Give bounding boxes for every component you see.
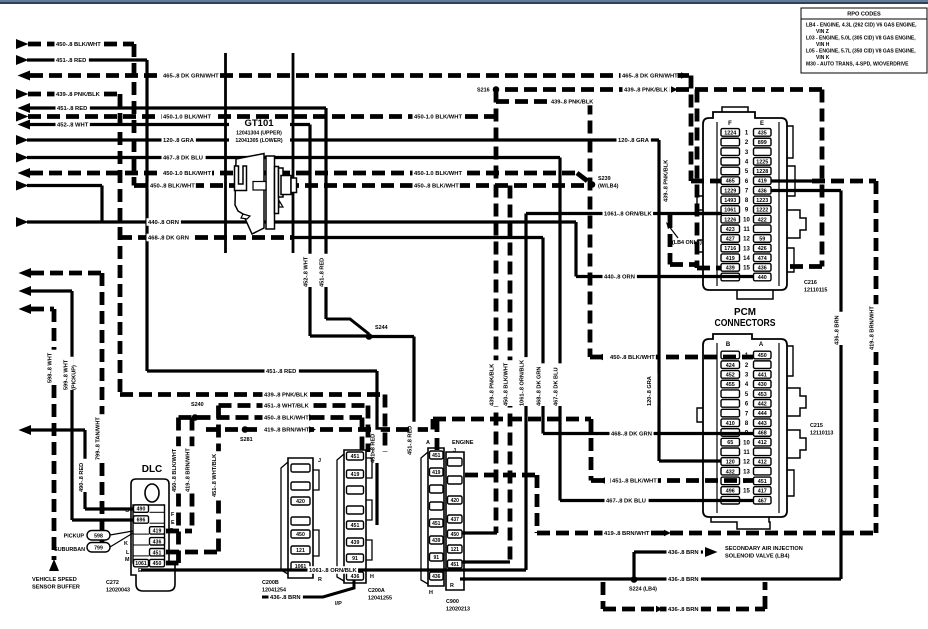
- svg-text:419-.8 BRN/WHT: 419-.8 BRN/WHT: [264, 428, 310, 434]
- svg-text:439-.8 PNK/BLK: 439-.8 PNK/BLK: [56, 92, 101, 98]
- svg-text:450: 450: [296, 532, 305, 538]
- svg-text:451: 451: [351, 523, 360, 529]
- vertical wire label 450-.8 BLK/WHT: [175, 446, 182, 492]
- wire riser 450 dashed x134: [132, 44, 137, 186]
- wire 465 stub into C216 F6: [691, 179, 722, 184]
- C216 pin row 2: [721, 138, 740, 146]
- C200A pin 1: [347, 452, 364, 460]
- solenoid valve arrow: [705, 547, 718, 557]
- svg-text:419-.8 BRN/WHT: 419-.8 BRN/WHT: [869, 306, 875, 350]
- C200A pin 3: [347, 486, 364, 494]
- svg-text:VIN K: VIN K: [816, 55, 830, 61]
- C200B pin 7: [291, 562, 310, 570]
- svg-text:K: K: [124, 541, 128, 547]
- wire label 451-.8 RED: [265, 367, 299, 375]
- svg-text:H: H: [370, 574, 374, 580]
- wire label 450-.8 BLK/WHT: [55, 40, 102, 48]
- wire 440-.8 ORN into C216 440 crossing F16: [576, 275, 753, 278]
- svg-text:R: R: [318, 577, 322, 583]
- wire label 419-.8 BRN/WHT: [603, 529, 650, 537]
- wire 450-.8 BLK/WHT row11 solid stub: [16, 181, 29, 191]
- svg-text:1229: 1229: [724, 188, 736, 194]
- svg-text:91: 91: [433, 555, 439, 561]
- wire label 439-.8 PNK/BLK: [550, 98, 596, 106]
- wire 436-.8 BRN from C200A H: [262, 580, 354, 597]
- svg-text:DLC: DLC: [142, 464, 163, 475]
- vertical wire label 452-.8 WHT: [306, 254, 313, 287]
- svg-text:439-.8 PNK/BLK: 439-.8 PNK/BLK: [489, 364, 495, 406]
- svg-text:799-.8 TAN/WHT: 799-.8 TAN/WHT: [95, 417, 101, 460]
- svg-text:451-.8 WHT/BLK: 451-.8 WHT/BLK: [264, 404, 310, 410]
- C215 pin row 11: [721, 448, 740, 456]
- svg-text:J: J: [318, 458, 321, 464]
- wire label 120-.8 GRA: [617, 136, 651, 144]
- svg-text:C272: C272: [106, 580, 119, 586]
- C215 pin row 6: [721, 400, 740, 408]
- C216 pin row 13: [721, 244, 740, 252]
- svg-text:450-.8 BLK/WHT: 450-.8 BLK/WHT: [503, 362, 509, 406]
- svg-text:442: 442: [758, 402, 767, 408]
- C900 left pin 3: [430, 485, 444, 493]
- svg-text:490: 490: [137, 507, 146, 513]
- connector C215: [697, 334, 833, 529]
- svg-text:12020213: 12020213: [446, 607, 470, 613]
- svg-text:C215: C215: [810, 423, 823, 429]
- svg-text:VIN Z: VIN Z: [816, 29, 829, 35]
- svg-text:1228: 1228: [756, 169, 768, 175]
- wire label 468-.8 DK GRN: [147, 234, 191, 242]
- C900 left pin 5: [430, 519, 444, 527]
- svg-text:436-.8 BRN: 436-.8 BRN: [668, 577, 699, 583]
- svg-text:12: 12: [743, 460, 750, 466]
- svg-text:468-.8 DK GRN: 468-.8 DK GRN: [148, 236, 189, 242]
- wire label 436-.8 BRN: [269, 593, 303, 601]
- wire label 450-.8 BLK/WHT: [413, 182, 460, 190]
- C216 pin row 1: [721, 129, 740, 137]
- splice S244: [366, 333, 373, 340]
- svg-text:455: 455: [726, 382, 735, 388]
- svg-text:436: 436: [758, 188, 767, 194]
- wire riser 1061 x526: [524, 214, 527, 571]
- splice S281: [242, 426, 249, 433]
- svg-text:D: D: [170, 528, 174, 534]
- C216 pin row 5: [721, 167, 740, 175]
- wire 439-.8 PNK/BLK branch row: [496, 99, 590, 104]
- svg-text:436: 436: [351, 574, 360, 580]
- svg-text:443: 443: [758, 421, 767, 427]
- wire drop 465 x691: [689, 76, 694, 182]
- C900 right pin 2: [448, 476, 463, 484]
- svg-text:450-.8 BLK/WHT: 450-.8 BLK/WHT: [264, 416, 309, 422]
- svg-text:I/P: I/P: [335, 601, 342, 607]
- svg-text:ENGINE: ENGINE: [452, 440, 474, 446]
- C215 pin row 1: [721, 351, 740, 359]
- wire drop x590 to C215 A1: [588, 102, 593, 358]
- wire 452-.8 WHT drop x310: [308, 125, 311, 337]
- C900 left pin 4: [430, 502, 444, 510]
- wire 1061 stub F9: [700, 212, 721, 215]
- svg-text:C200B: C200B: [262, 580, 279, 586]
- wire into DLC 419 pin: [166, 529, 192, 534]
- svg-text:10: 10: [743, 217, 750, 223]
- wire 467-.8 DK BLU row9: [16, 153, 29, 163]
- svg-text:S239: S239: [598, 176, 611, 182]
- wire label 439-.8 PNK/BLK: [55, 90, 102, 98]
- svg-text:439: 439: [432, 538, 441, 544]
- svg-text:11: 11: [743, 450, 750, 456]
- svg-text:412: 412: [758, 440, 767, 446]
- connector C200B: [281, 458, 319, 578]
- vertical wire label 450-.8 BLK/WHT: [506, 360, 513, 406]
- svg-text:E: E: [760, 121, 764, 127]
- C215 pin row 14: [721, 477, 740, 485]
- wire label 436-.8 BRN: [667, 548, 701, 556]
- svg-text:440-.8 ORN: 440-.8 ORN: [148, 220, 179, 226]
- wire label 1061-.8 ORN/BLK: [308, 566, 359, 574]
- C216 pin row 3: [721, 148, 740, 156]
- svg-text:419: 419: [351, 472, 360, 478]
- svg-text:465-.8 DK GRN/WHT: 465-.8 DK GRN/WHT: [622, 74, 678, 80]
- svg-text:450-.8 BLK/WHT: 450-.8 BLK/WHT: [610, 355, 655, 361]
- vertical wire label 1061-.8 ORN/BLK: [522, 357, 529, 406]
- wire 468-.8 DK GRN row14: [119, 235, 293, 240]
- svg-text:419-.8 BRN/WHT: 419-.8 BRN/WHT: [185, 448, 191, 492]
- svg-text:451-.8 BLK/WHT: 451-.8 BLK/WHT: [612, 479, 657, 485]
- wire drop x385 to C200A: [383, 395, 388, 453]
- splice S240: [192, 414, 199, 421]
- vertical wire label 451-.8 RED: [410, 422, 417, 455]
- svg-text:451: 451: [432, 453, 441, 459]
- wire 439-.8 PNK/BLK from S216 to right: [505, 87, 822, 92]
- svg-text:SENSOR BUFFER: SENSOR BUFFER: [32, 585, 80, 591]
- svg-text:1061: 1061: [724, 208, 736, 214]
- C215 pin row 3: [721, 371, 740, 379]
- svg-text:451-.8 RED: 451-.8 RED: [319, 258, 325, 287]
- svg-text:1061-.8 ORN/BLK: 1061-.8 ORN/BLK: [604, 212, 652, 218]
- wire riser 451 RED x147: [145, 60, 148, 371]
- C200A pin 6: [347, 538, 364, 546]
- wire 450-1.0 BLK/WHT row6: [16, 112, 29, 122]
- svg-text:13: 13: [743, 246, 750, 252]
- wire 452-.8 WHT row7: [18, 120, 31, 130]
- svg-text:427: 427: [726, 237, 735, 243]
- C215 pin row 10: [721, 438, 740, 446]
- svg-text:SOLENOID VALVE (LB4): SOLENOID VALVE (LB4): [725, 554, 790, 560]
- wire 490-.8 RED: [19, 425, 32, 435]
- C215 pin row 7: [721, 409, 740, 417]
- wire label 440-.8 ORN: [603, 273, 637, 281]
- svg-text:474: 474: [758, 256, 767, 262]
- svg-text:451-.8 RED: 451-.8 RED: [56, 58, 86, 64]
- svg-text:12041304 (UPPER): 12041304 (UPPER): [236, 131, 282, 137]
- wire label 451-.8 RED: [55, 56, 89, 64]
- svg-text:S240: S240: [191, 402, 204, 408]
- svg-text:1225: 1225: [756, 159, 768, 165]
- svg-text:R: R: [450, 583, 454, 589]
- svg-text:432: 432: [726, 469, 735, 475]
- C215 pin row 5: [721, 390, 740, 398]
- PICKUP oval: [87, 531, 110, 541]
- wire 419 riser from S240: [190, 418, 195, 532]
- svg-text:467-.8 DK BLU: 467-.8 DK BLU: [163, 156, 203, 162]
- svg-text:SECONDARY AIR INJECTION: SECONDARY AIR INJECTION: [725, 546, 803, 552]
- wire label 436-.8 BRN: [667, 575, 701, 583]
- connector C216: [697, 107, 827, 299]
- wire 451-.8 RED drop x326: [324, 108, 327, 319]
- top banner bar: [0, 0, 928, 2]
- wire label 419-.8 BRN/WHT: [263, 426, 310, 434]
- C216 pin row 8: [721, 196, 740, 204]
- C215 pin row 15: [721, 487, 740, 495]
- oval link lines: [110, 531, 133, 535]
- svg-text:120-.8 GRA: 120-.8 GRA: [647, 376, 653, 406]
- svg-text:412: 412: [758, 460, 767, 466]
- svg-text:439: 439: [726, 265, 735, 271]
- C215 pin row 8: [721, 419, 740, 427]
- svg-text:451-.8 RED: 451-.8 RED: [266, 369, 296, 375]
- GT101 grommet drawing: [235, 154, 297, 235]
- svg-text:10: 10: [743, 440, 750, 446]
- C900 right pin 6: [448, 545, 463, 553]
- wire into DLC 451 pin: [166, 550, 219, 555]
- wire into DLC row2: [72, 518, 134, 521]
- C900 right pin 7: [448, 560, 463, 568]
- C216 pin row 10: [721, 215, 740, 223]
- connector DLC: [131, 479, 175, 591]
- vertical wire label 599-.8 WHT: [66, 357, 73, 390]
- C216 pin row 11: [721, 225, 740, 233]
- svg-text:439-.8 PNK/BLK: 439-.8 PNK/BLK: [264, 393, 309, 399]
- wire drop x368 to C200A: [366, 406, 371, 453]
- svg-text:E: E: [171, 520, 175, 526]
- svg-text:420: 420: [451, 498, 460, 504]
- svg-text:12041305 (LOWER): 12041305 (LOWER): [235, 138, 283, 144]
- svg-text:439-.8 PNK/BLK: 439-.8 PNK/BLK: [624, 88, 669, 94]
- svg-text:435: 435: [758, 131, 767, 137]
- C215 pin row 13: [721, 467, 740, 475]
- wire 598-.8 WHT: [19, 304, 32, 314]
- wire riser 436 BRN x841: [839, 191, 842, 580]
- vertical wire label 451-.8 RED: [322, 254, 329, 287]
- C200B pin 6: [291, 546, 310, 554]
- wire label 450-1.0 BLK/WHT: [413, 113, 464, 121]
- svg-text:VIN H: VIN H: [816, 42, 830, 48]
- svg-text:467-.8 DK BLU: 467-.8 DK BLU: [553, 367, 559, 406]
- svg-text:467: 467: [758, 498, 767, 504]
- svg-text:426: 426: [758, 246, 767, 252]
- svg-text:S216: S216: [477, 88, 490, 94]
- svg-text:423: 423: [726, 227, 735, 233]
- splice S224: [631, 576, 638, 583]
- C216 pin row 16: [721, 273, 740, 281]
- svg-text:120-.8 GRA: 120-.8 GRA: [163, 138, 195, 144]
- wire 450 into C215 A1 crossing B1: [590, 355, 753, 360]
- C900 right stub wires: [462, 531, 497, 534]
- svg-text:468-.8 DK GRN: 468-.8 DK GRN: [611, 432, 652, 438]
- C200B pin 3: [291, 497, 310, 505]
- svg-text:PCM: PCM: [734, 306, 756, 318]
- DLC pin row 6: [134, 559, 149, 566]
- wire 450-.8 BLK/WHT row1: [16, 39, 29, 49]
- wire riser 419 BRN/WHT x876: [874, 181, 879, 533]
- vertical wire label 468-.8 DK GRN: [539, 363, 546, 406]
- svg-text:436: 436: [432, 574, 441, 580]
- svg-text:451: 451: [451, 562, 460, 568]
- C900 left pin 6: [430, 536, 444, 544]
- vertical wire label 598-.8 WHT: [50, 350, 57, 383]
- wire 465-.8 DK GRN/WHT row3: [18, 71, 31, 81]
- vertical wire label 419-.8 BRN/WHT: [188, 446, 195, 492]
- svg-text:419: 419: [726, 256, 735, 262]
- wire label 450-.8 BLK/WHT: [609, 353, 656, 361]
- svg-text:598-.8 WHT: 598-.8 WHT: [47, 352, 53, 383]
- svg-text:451: 451: [153, 550, 162, 556]
- wire label 440-.8 ORN: [147, 218, 181, 226]
- wire label 467-.8 DK BLU: [162, 154, 206, 162]
- C200B pin 5: [291, 530, 310, 538]
- svg-text:11: 11: [743, 227, 750, 233]
- wire label 120-.8 GRA: [162, 136, 196, 144]
- svg-text:439-.8 PNK/BLK: 439-.8 PNK/BLK: [551, 100, 593, 106]
- vertical wire label 120-.8 GRA: [650, 373, 657, 406]
- wire 419-.8 BRN/WHT bottom run: [537, 531, 876, 536]
- svg-text:59: 59: [759, 237, 765, 243]
- wire label 468-.8 DK GRN: [610, 430, 654, 438]
- bulkhead connector GT101 rails: [224, 53, 227, 253]
- C215 pin row 9: [721, 429, 740, 437]
- wire 451-.8 BLK/WHT into C215 A14: [589, 419, 594, 481]
- svg-text:453: 453: [758, 392, 767, 398]
- svg-text:12110113: 12110113: [810, 431, 833, 437]
- svg-text:451: 451: [432, 521, 441, 527]
- C216 pin row 4: [721, 158, 740, 166]
- wire 436 dashed LB4 loop: [601, 582, 606, 609]
- svg-text:12: 12: [743, 237, 750, 243]
- svg-text:451-.8 RED: 451-.8 RED: [57, 106, 87, 112]
- wire E6 419 to right: [771, 179, 812, 182]
- svg-text:(PICKUP): (PICKUP): [72, 365, 78, 390]
- svg-text:452-.8 WHT: 452-.8 WHT: [303, 256, 309, 287]
- svg-text:451: 451: [351, 454, 360, 460]
- svg-text:12110115: 12110115: [804, 288, 827, 294]
- wire 467 into C215 A16 crossing B16: [560, 499, 753, 502]
- splice S239: [589, 181, 596, 188]
- wire label 450-1.0 BLK/WHT: [413, 169, 464, 177]
- wire 439-.8 PNK/BLK row4: [16, 89, 29, 99]
- wire 120-.8 GRA row8: [16, 135, 29, 145]
- wire 451-.8 RED row2: [16, 55, 29, 65]
- svg-text:L03 - ENGINE, 5.0L (305 CID) V: L03 - ENGINE, 5.0L (305 CID) V8 GAS ENGI…: [806, 36, 916, 42]
- svg-text:1061-.8 ORN/BLK: 1061-.8 ORN/BLK: [309, 568, 357, 574]
- svg-text:437: 437: [451, 517, 460, 523]
- wire 451-.8 WHT/BLK mid row: [219, 403, 369, 408]
- wire 439-.8 PNK/BLK mid row: [120, 392, 385, 397]
- C216 pin row 14: [721, 254, 740, 262]
- wire drop right of C216 x822: [820, 90, 825, 267]
- wire riser 450 BLK/WHT x510: [508, 186, 513, 563]
- svg-text:465-.8 DK GRN/WHT: 465-.8 DK GRN/WHT: [163, 74, 219, 80]
- svg-text:424: 424: [726, 363, 735, 369]
- svg-text:419: 419: [758, 179, 767, 185]
- svg-text:A: A: [759, 342, 764, 348]
- svg-text:S244: S244: [375, 325, 388, 331]
- svg-text:C200A: C200A: [368, 588, 385, 594]
- svg-text:15: 15: [743, 266, 750, 272]
- C900 right pin 3: [448, 496, 463, 504]
- wire label 452-.8 WHT: [56, 121, 90, 129]
- svg-text:436-.8 BRN: 436-.8 BRN: [668, 550, 699, 556]
- wire label 439-.8 PNK/BLK: [263, 391, 310, 399]
- svg-text:696: 696: [137, 518, 146, 524]
- svg-text:1222: 1222: [756, 208, 768, 214]
- splice S216: [493, 86, 500, 93]
- wire label 450-.8 BLK/WHT: [149, 182, 196, 190]
- svg-text:13: 13: [743, 469, 750, 475]
- svg-text:436-.8 BRN: 436-.8 BRN: [270, 595, 301, 601]
- svg-text:450-.8 BLK/WHT: 450-.8 BLK/WHT: [150, 184, 195, 190]
- vertical wire label 451-.8 RED: [373, 430, 380, 463]
- wire 1061-.8 ORN/BLK bottom row: [141, 568, 526, 571]
- wire 419-.8 BRN/WHT mid row: [206, 427, 433, 432]
- svg-text:440: 440: [758, 275, 767, 281]
- wire 451-.8 RED horizontal row: [147, 369, 377, 372]
- SUBURBAN oval: [87, 543, 110, 553]
- vehicle speed buffer arrow: [49, 559, 59, 571]
- DLC pin row 4: [150, 538, 165, 545]
- C900 left pin 7: [430, 553, 444, 561]
- S244 merge wires: [310, 334, 369, 337]
- svg-text:VEHICLE SPEED: VEHICLE SPEED: [32, 577, 77, 583]
- svg-text:120-.8 GRA: 120-.8 GRA: [618, 138, 650, 144]
- svg-text:444: 444: [758, 411, 767, 417]
- svg-text:S281: S281: [240, 437, 253, 443]
- svg-text:12020043: 12020043: [106, 588, 130, 594]
- C200B pin 4: [291, 517, 310, 525]
- svg-text:467-.8 DK BLU: 467-.8 DK BLU: [606, 499, 646, 505]
- wire 450-1.0 BLK/WHT row10: [18, 168, 31, 178]
- svg-text:PICKUP: PICKUP: [64, 534, 85, 540]
- svg-text:436: 436: [758, 265, 767, 271]
- svg-text:1493: 1493: [724, 198, 736, 204]
- svg-text:450-.8 BLK/WHT: 450-.8 BLK/WHT: [56, 42, 101, 48]
- wire drop x437 to C900 A: [435, 419, 440, 450]
- svg-text:430: 430: [758, 382, 767, 388]
- svg-text:1224: 1224: [724, 131, 736, 137]
- C216 pin row 6: [721, 177, 740, 185]
- svg-text:451: 451: [758, 479, 767, 485]
- wire label 467-.8 DK BLU: [605, 497, 649, 505]
- wire E7 436 to right: [771, 189, 841, 192]
- svg-text:451-.8 RED: 451-.8 RED: [407, 426, 413, 455]
- svg-text:120: 120: [726, 460, 735, 466]
- DLC pin row 3: [150, 527, 165, 534]
- vertical wire label (PICKUP): [75, 363, 82, 390]
- C900 left pin 8: [430, 572, 444, 580]
- C200A pin 4: [347, 506, 364, 514]
- LB4 ONLY dashed branch: [668, 215, 673, 265]
- vertical wire label 490-.8 RED: [82, 459, 89, 492]
- svg-text:450-1.0 BLK/WHT: 450-1.0 BLK/WHT: [414, 115, 462, 121]
- C200B pin 1: [291, 464, 310, 472]
- svg-text:598: 598: [94, 534, 103, 540]
- svg-text:799: 799: [94, 546, 103, 552]
- wire riser 450 BLK/WHT x178: [176, 418, 181, 564]
- svg-text:(W/LB4): (W/LB4): [598, 184, 619, 190]
- svg-text:H: H: [429, 590, 433, 596]
- C900 right pin 4: [448, 515, 463, 523]
- C900 right pin 5: [448, 530, 463, 538]
- svg-text:1223: 1223: [756, 198, 768, 204]
